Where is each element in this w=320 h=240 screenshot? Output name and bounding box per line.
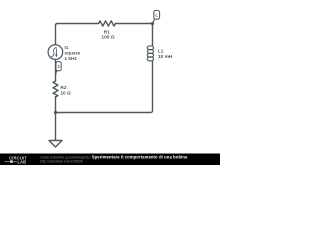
wire top (node 1 to R1, with rounded corner down the left side) (56, 24, 99, 45)
wire I1 to R2 (55, 60, 57, 82)
wire node L down to L1 (152, 24, 154, 47)
node L flag box (154, 10, 160, 19)
logo chip (10, 160, 13, 163)
ground (49, 141, 62, 148)
svg-text:http://circuitlab.com/c45539: http://circuitlab.com/c45539 (40, 159, 83, 163)
wire L1 to bottom rail (rounded corner) (56, 61, 153, 113)
node 2 flag box (56, 62, 61, 71)
node L flag lead (153, 19, 155, 23)
junction node L (151, 22, 154, 25)
logo wire-left (5, 161, 10, 163)
current source I1 (48, 45, 63, 60)
svg-text:L: L (155, 12, 158, 17)
svg-text:square: square (64, 51, 80, 57)
resistor R1 (99, 21, 116, 26)
svg-text:L1: L1 (158, 48, 164, 54)
junction bottom rail / ground stem (54, 111, 57, 114)
resistor R2 (53, 81, 58, 97)
svg-text:R1: R1 (104, 30, 110, 36)
I1 arrow shaft (55, 49, 57, 57)
inductor L1 (147, 46, 153, 61)
svg-text:10 mH: 10 mH (158, 54, 173, 60)
caption bar (0, 154, 220, 166)
node 2 flag lead (56, 71, 57, 76)
svg-text:I1: I1 (64, 45, 68, 51)
I1 arrowhead (55, 54, 57, 57)
svg-text:LAB: LAB (18, 160, 27, 165)
svg-text:1 kHz: 1 kHz (64, 56, 77, 62)
CircuitLab logo wordmark (9, 156, 27, 165)
svg-text:100 Ω: 100 Ω (101, 35, 114, 41)
svg-text:R2: R2 (60, 85, 66, 91)
wire R2 to ground (55, 97, 57, 141)
wire R1 to node L (116, 23, 153, 25)
svg-text:10 Ω: 10 Ω (60, 90, 71, 96)
logo wire-right (13, 161, 17, 163)
I1 wave glyph (51, 47, 56, 56)
